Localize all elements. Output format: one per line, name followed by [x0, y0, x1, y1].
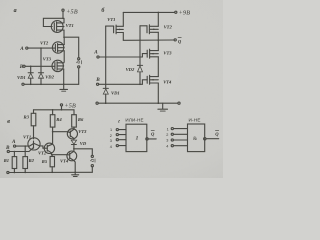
wire VT3 collector to R6: [73, 127, 75, 129]
node rail junctions: [30, 84, 32, 86]
wires U2 inputs: [173, 128, 187, 130]
ground: [162, 103, 164, 109]
input terminals U1: [116, 129, 118, 131]
output terminal lower: [91, 165, 93, 167]
wire output line: [123, 39, 174, 41]
wire VT1 gate-drain loop: [43, 18, 63, 26]
ground rail terminal right: [178, 102, 180, 104]
diode VD: [71, 140, 76, 144]
wires U1 inputs: [118, 129, 126, 131]
resistor R4: [52, 110, 54, 115]
node rail junctions: [105, 102, 107, 104]
wire input A to VT2 gate: [28, 47, 56, 49]
power terminal +5V: [60, 104, 62, 106]
wire VT4 emitter to rail: [74, 160, 76, 172]
wire VT3 source to VT4 drain: [157, 57, 159, 77]
wire output tap: [74, 149, 92, 156]
wire input B line: [99, 83, 143, 85]
input terminals U2: [171, 128, 173, 130]
transistor VT2 (MOSFET, circle style): [52, 42, 63, 53]
transistor VT3 (MOSFET, circle style): [52, 60, 63, 71]
wire ground rail: [98, 102, 178, 104]
diode VD1: [103, 87, 108, 89]
wire U1 output: [148, 138, 156, 140]
node A / VT1-gate vertical: [105, 56, 107, 58]
wire VT4 source to ground rail: [157, 83, 159, 103]
wire output tap to terminal: [64, 37, 79, 57]
U2 inversion bubble: [204, 138, 206, 140]
label U1 output Q-bar: [151, 130, 155, 136]
node VT2 collector / R4 / VT3 base: [52, 131, 54, 133]
diode VD2 with vertical to VT2 gate: [139, 26, 141, 65]
wire lower terminal to rail: [91, 167, 93, 173]
wire VT2 drain up to output node: [63, 37, 65, 44]
label Q-bar (rotated): [76, 61, 81, 64]
paper background: [0, 0, 223, 178]
node rail junctions: [14, 172, 16, 174]
wire R4 node down to VT2 collector: [52, 132, 54, 144]
wire +9V top rail: [123, 11, 174, 13]
wire supply drop: [62, 11, 64, 18]
rail terminal left: [7, 171, 9, 173]
output terminal Q-bar: [174, 39, 176, 41]
node rail/VT2: [158, 12, 160, 14]
ground: [63, 84, 65, 89]
diode VD2: [40, 48, 42, 73]
node output line / chain: [158, 39, 160, 41]
wire input B to VT1 emitter: [9, 151, 29, 153]
node A / VD2 branch: [40, 47, 42, 49]
wire VT1 source down to output node: [63, 30, 65, 37]
wire VT2 emitter node: [52, 153, 67, 155]
wire input A to VT1 emitter: [16, 145, 30, 147]
diode VD1: [30, 66, 32, 72]
node output: [73, 148, 75, 150]
wire VT1 drain to rail: [122, 12, 124, 26]
U1 inversion bubble: [146, 138, 148, 140]
wire VT3 emitter to diode: [73, 138, 75, 140]
wire R4 node to VT3 base: [53, 131, 68, 133]
wire VT1 collector to VT2 base: [40, 146, 45, 148]
wire VT1 drain to supply: [63, 18, 65, 23]
wire VT2 source down to output line: [157, 32, 159, 40]
wire lower terminal to ground rail: [78, 68, 80, 84]
ground: [74, 172, 76, 174]
resistor R3: [33, 110, 35, 114]
node supply junction: [61, 109, 63, 111]
node supply/gate-loop junction: [62, 18, 64, 20]
wire VT2 source to VT3 drain: [63, 51, 65, 63]
power terminal +5V: [62, 9, 64, 11]
label U2 output Q-bar: [215, 131, 219, 137]
node output terminal lower: [78, 66, 80, 68]
wire input A line: [99, 56, 142, 58]
wire ground rail: [24, 83, 79, 85]
wire VT2 drain to rail: [157, 12, 159, 26]
ground rail terminal left: [96, 102, 98, 104]
power terminal +9V: [175, 11, 177, 13]
label Q-bar (rotated): [90, 159, 95, 162]
ground rail terminal: [22, 83, 24, 85]
wire bottom rail: [9, 171, 92, 173]
node B / VD2: [139, 84, 141, 86]
wire input B to VT3 gate: [25, 65, 55, 67]
wire VT3 source to rail: [63, 69, 65, 84]
wire VT3 drain up to output line: [157, 40, 159, 50]
node B / VD1 branch: [30, 66, 32, 68]
resistor R6: [73, 110, 75, 115]
resistor R1: [14, 151, 16, 153]
gate U2 box: [188, 124, 205, 152]
transistor VT1 (MOSFET, circle style): [51, 21, 63, 33]
node output tap: [63, 36, 65, 38]
output terminal Q upper: [91, 155, 93, 157]
wire VT4 collector to output node: [73, 149, 75, 152]
gate U1 box: [126, 124, 147, 151]
wire VT1 source down to output line: [122, 33, 124, 41]
wire top rail: [34, 109, 75, 111]
wire U2 output: [206, 138, 219, 140]
resistor R2: [24, 145, 26, 147]
node output terminal Q-bar upper: [78, 58, 80, 60]
wire A vertical: VT1 gate / VD1 branch: [105, 26, 107, 88]
resistor R5: [51, 155, 53, 157]
